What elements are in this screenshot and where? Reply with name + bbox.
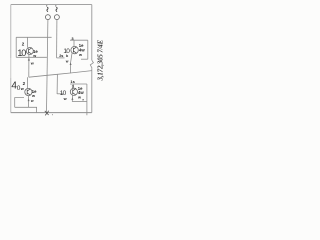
wire: Q2 emitter down	[71, 53, 73, 73]
wire: terminal T1 down to bottom border	[47, 20, 48, 113]
transistor Q4	[70, 88, 77, 95]
Q2 emitter arrow	[70, 63, 72, 66]
transistor Q3	[25, 88, 32, 95]
wire: Q3 collector leg	[27, 77, 29, 88]
svg-text:3: 3	[72, 84, 74, 88]
svg-text:w: w	[63, 97, 67, 101]
border frame right lower	[91, 68, 93, 112]
transistor Q2	[71, 46, 78, 53]
wire: Q1 collector leg	[27, 37, 29, 47]
svg-text:w: w	[30, 61, 34, 65]
wire: bus drop to Q4 base	[56, 74, 58, 94]
terminal T1	[45, 15, 50, 20]
svg-text:w: w	[78, 53, 82, 57]
wire: Q3 left bracket	[15, 98, 24, 108]
transistor Q1	[26, 48, 33, 55]
svg-text:w: w	[32, 54, 36, 58]
border frame right upper	[91, 5, 93, 61]
wire: T2 to Q2 base	[57, 57, 65, 59]
border frame left	[10, 5, 12, 58]
svg-text:w: w	[20, 87, 24, 91]
svg-text:w: w	[30, 99, 34, 103]
Q4 emitter arrow	[71, 97, 73, 100]
wire: Q1 top loop	[16, 36, 51, 38]
wire: Q4 right bracket to border	[86, 84, 88, 115]
wire: Q3 emitter down	[28, 96, 30, 108]
Q1 emitter arrow	[28, 58, 30, 61]
svg-text:w: w	[31, 94, 35, 98]
wire: Q2 top loop	[70, 39, 88, 41]
svg-text:w: w	[65, 59, 69, 63]
svg-text:1e: 1e	[32, 89, 37, 94]
wire: Q1 emitter down	[28, 55, 30, 78]
wire: Q4 top loop	[70, 83, 87, 85]
wire: Q2 lower tick	[81, 58, 88, 60]
terminal T2 label	[56, 7, 57, 11]
wire: slanted bus	[29, 71, 92, 78]
wire: Q4 base tick	[57, 93, 63, 95]
terminal T1 label	[47, 7, 48, 11]
svg-text:10: 10	[17, 48, 26, 58]
wire: Q4 collector leg	[72, 84, 74, 88]
wire: Q4 emitter run	[72, 101, 87, 103]
wire: Q3 lower run	[15, 107, 37, 112]
svg-text:4w: 4w	[78, 90, 84, 95]
border frame top	[11, 4, 92, 6]
svg-text:w: w	[77, 96, 81, 100]
wire: Q2 collector leg	[73, 40, 75, 46]
svg-text:3,172,305 7/4E: 3,172,305 7/4E	[97, 39, 105, 81]
wire: Q4 emitter down	[71, 95, 73, 101]
x mark on bottom border	[45, 111, 49, 116]
border frame bottom	[11, 112, 92, 114]
wire: Q1 left bracket	[15, 37, 17, 57]
wire: Q1 lower loop	[16, 56, 47, 58]
break squiggle in right border	[90, 60, 93, 68]
wire: terminal T2 down	[56, 20, 58, 58]
wire: Q2 right bracket	[87, 40, 89, 59]
terminal T2	[54, 15, 59, 20]
Q3 emitter arrow	[28, 99, 30, 102]
